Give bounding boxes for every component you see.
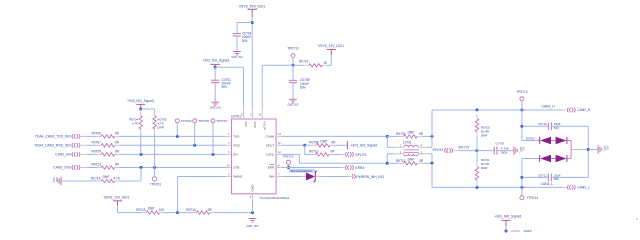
wire CANH rail [432, 110, 566, 136]
node 3V3 junction [214, 66, 217, 69]
svg-text:C0711: C0711 [538, 173, 547, 177]
svg-text:10: 10 [258, 114, 261, 117]
svg-text:0R: 0R [419, 132, 424, 136]
svg-text:DNP: DNP [481, 166, 488, 170]
node VSUP junction [292, 64, 295, 67]
wire CAN2_STB to resistor [81, 167, 97, 169]
capacitor C0708 [289, 78, 310, 89]
svg-text:0R: 0R [419, 159, 424, 163]
node TXD testpoint junction [176, 135, 179, 138]
wire WAKE down [178, 177, 226, 213]
svg-text:ISO: ISO [606, 146, 609, 150]
svg-text:EN: EN [233, 153, 237, 157]
svg-text:CANH: CANH [266, 135, 275, 139]
node SPLIT junction [303, 144, 306, 147]
pin stub 4 [226, 142, 232, 145]
svg-text:0R: 0R [330, 149, 335, 153]
capacitor C0704 [233, 32, 252, 43]
testpoint TP0712 [287, 46, 299, 57]
svg-text:C0712: C0712 [538, 122, 547, 126]
svg-text:4: 4 [228, 142, 230, 145]
wire 12V down [118, 206, 142, 213]
svg-text:CANL: CANL [266, 153, 275, 157]
wire VCC vertical [251, 18, 253, 108]
svg-text:4.7K: 4.7K [132, 122, 139, 126]
svg-text:TP0714: TP0714 [527, 196, 538, 200]
svg-text:CAN2_L: CAN2_L [541, 182, 554, 186]
wire R0713 to IC [119, 167, 226, 169]
svg-text:100nF: 100nF [523, 229, 532, 233]
power +3V3_ISO_Signal1 split [335, 141, 378, 149]
svg-text:TP0701: TP0701 [150, 183, 161, 187]
svg-text:+3V3_ISO_Signal1: +3V3_ISO_Signal1 [202, 58, 229, 62]
node cap C0712 junction [520, 125, 523, 128]
svg-text:GND_ISO: GND_ISO [210, 107, 221, 110]
svg-text:GND_ISO: GND_ISO [231, 56, 242, 59]
wire R0701 to 12V [327, 50, 332, 66]
wire TP0705 to RXD [194, 123, 196, 145]
wire TP0712 stub [292, 58, 294, 66]
svg-text:ISO: ISO [521, 147, 524, 151]
svg-text:GND_: GND_ [519, 147, 522, 154]
svg-text:TCAN1043HGVDRQ1: TCAN1043HGVDRQ1 [260, 196, 290, 200]
off-page connector CAN2_H [567, 108, 591, 113]
svg-text:11: 11 [278, 142, 281, 145]
node CANL choke right [431, 162, 434, 165]
power +3V3_ISO_Signal1 bottom [494, 215, 521, 226]
resistor R0707 0R [92, 141, 120, 148]
svg-text:6: 6 [228, 151, 230, 154]
svg-text:SPLIT3: SPLIT3 [432, 148, 443, 152]
svg-text:TP0705: TP0705 [198, 119, 209, 123]
wire CANH [282, 135, 388, 137]
svg-text:VSUP: VSUP [263, 122, 267, 130]
node RXD testpoint junction [193, 144, 196, 147]
wire R0705 to STB [154, 134, 156, 168]
wire SPLIT [282, 144, 305, 146]
power +3V3_ISO_Signal1 left [202, 58, 229, 67]
node EN pullup junction [140, 153, 143, 156]
off-page connector ERR3 [345, 165, 364, 170]
svg-text:a: a [636, 218, 638, 221]
wire VSUP to C0708 [292, 65, 294, 80]
pin stub 14 [226, 164, 232, 167]
svg-text:12: 12 [278, 151, 281, 154]
svg-text:INH: INH [269, 175, 274, 179]
node ERR junction [287, 166, 290, 169]
power VSYS_12V_ISO1 bottom [104, 196, 130, 206]
svg-text:+3V3_ISO_Signal1: +3V3_ISO_Signal1 [127, 99, 154, 103]
svg-text:13: 13 [278, 133, 281, 136]
wire R0710 to connector [334, 154, 345, 156]
svg-text:CAN2_EN: CAN2_EN [55, 152, 71, 156]
pin stub WAKE [226, 173, 232, 176]
diode D0701 zener [306, 171, 317, 182]
wire TP0701 stub [154, 168, 156, 177]
svg-text:PWRON_INH_ISO: PWRON_INH_ISO [356, 175, 384, 179]
node bottom junction [505, 230, 508, 233]
svg-text:50V: 50V [222, 85, 229, 89]
svg-text:0R: 0R [115, 163, 120, 167]
node EN testpoint junction [212, 153, 215, 156]
svg-text:C0707: C0707 [495, 142, 504, 146]
off-page connector CAN2_STB [53, 165, 80, 170]
svg-text:SPLIT: SPLIT [266, 144, 275, 148]
svg-text:DNP: DNP [157, 126, 164, 130]
svg-text:+3V3_ISO_Signal1: +3V3_ISO_Signal1 [351, 144, 378, 148]
svg-text:DNP: DNP [408, 131, 415, 135]
stray mark right edge [636, 218, 638, 221]
power +3V3_ISO_Signal1 pullups [127, 99, 154, 109]
svg-text:R0709: R0709 [92, 150, 102, 154]
svg-text:CAN2_H: CAN2_H [542, 105, 556, 109]
svg-text:DNP: DNP [408, 158, 415, 162]
wire TDA4_CAN2_TXD_ISO to resistor [81, 135, 97, 137]
node TVS ground junction [587, 148, 590, 151]
svg-text:TP0710: TP0710 [283, 155, 294, 159]
svg-text:VIO: VIO [244, 122, 248, 128]
resistor R0708 0R DNP [305, 139, 336, 147]
ground below C0708 [287, 99, 298, 106]
testpoint TP0713 [516, 90, 527, 101]
capacitor C0701 [211, 78, 231, 89]
capacitor C0707 4.7nF [477, 142, 509, 155]
svg-text:GND_: GND_ [52, 177, 55, 184]
svg-text:ISO: ISO [55, 177, 58, 181]
ground below IC [246, 219, 258, 228]
svg-text:100V: 100V [500, 151, 508, 155]
wire R0702 to node [476, 137, 478, 151]
wire INH [282, 176, 306, 178]
svg-text:TP0713: TP0713 [516, 90, 527, 94]
power VSYS_12V_ISO1 top [318, 44, 344, 49]
svg-text:GND_ISO: GND_ISO [287, 104, 298, 107]
svg-text:R0715: R0715 [136, 208, 146, 212]
svg-text:7: 7 [278, 173, 280, 176]
resistor R0712 0R DNP bypass [387, 158, 432, 165]
svg-text:ERR3: ERR3 [355, 166, 364, 170]
off-page connector CAN2_EN [55, 152, 80, 157]
wire C0707 to ground [497, 150, 513, 152]
wire TVS left top [521, 110, 523, 141]
svg-text:0R: 0R [115, 132, 120, 136]
svg-text:D0702: D0702 [526, 136, 535, 140]
svg-text:VSYS_12V_ISO1: VSYS_12V_ISO1 [104, 196, 130, 200]
svg-text:R0707: R0707 [92, 141, 102, 145]
off-page connector SPLIT3 mid [345, 152, 366, 157]
svg-text:R0714: R0714 [91, 176, 101, 180]
wire TVS right vertical [587, 126, 589, 177]
node CANH choke right [431, 135, 434, 138]
wire 3V3 to C0701 [214, 67, 216, 80]
node WAKE divider [176, 211, 179, 214]
svg-text:DNP: DNP [320, 139, 327, 143]
wire R0706 to IC [119, 135, 226, 137]
off-page connector TDA4_CAN2_RXD_ISO [34, 143, 80, 148]
off-page connector SPLIT3 right [432, 148, 452, 153]
node STB pulldown junction [140, 166, 143, 169]
svg-text:CAN2_L: CAN2_L [577, 185, 590, 189]
svg-text:4.7K: 4.7K [113, 176, 120, 180]
node STB pullup junction [153, 166, 156, 169]
net label SPLIT3 [458, 145, 469, 149]
diode array D0702 TVS [522, 136, 588, 162]
testpoint TP0702 [175, 119, 192, 123]
capacitor C0712 33pF [522, 122, 588, 130]
svg-text:R0716: R0716 [186, 208, 196, 212]
resistor R0713 0R [92, 163, 120, 170]
node CANH choke left [386, 135, 389, 138]
svg-text:R0710: R0710 [309, 149, 319, 153]
common-mode choke L0701 [387, 136, 432, 163]
wire TVS left bottom [521, 159, 523, 188]
svg-text:9: 9 [228, 173, 230, 176]
resistor R0704 4.7K [129, 109, 142, 134]
wire R0707 to IC [119, 144, 226, 146]
text annotation [289, 169, 315, 173]
wire SPLIT3 [454, 150, 477, 152]
svg-text:R0701: R0701 [299, 60, 309, 64]
svg-text:R0706: R0706 [92, 132, 102, 136]
node pullup junction [139, 108, 142, 111]
wire gnd to R0714 [61, 180, 97, 182]
wire TP0710 stub [288, 164, 290, 167]
wire R0714 to STB [119, 168, 141, 182]
wire IC GND pin down [252, 201, 254, 213]
svg-text:R0712: R0712 [396, 159, 406, 163]
svg-text:SPLIT3: SPLIT3 [458, 145, 469, 149]
svg-text:TDA4_CAN2_RXD_ISO: TDA4_CAN2_RXD_ISO [34, 143, 71, 147]
ground right of TVS [598, 145, 609, 153]
node rail TVS bottom [520, 186, 523, 189]
testpoint TP0705 [193, 119, 210, 123]
svg-text:ERR: ERR [268, 166, 275, 170]
node VCC junction [251, 21, 254, 24]
node rail R0711 [476, 186, 479, 189]
net label CAN2_L [541, 182, 554, 186]
resistor R0716 0R [186, 208, 214, 214]
svg-text:DNP: DNP [148, 207, 155, 211]
wire TP0714 stub [521, 187, 523, 195]
testpoint TP0701 [150, 177, 161, 187]
testpoint TP0714 [520, 196, 538, 200]
wire pullup split [141, 108, 155, 110]
capacitor C0711 33pF [522, 173, 588, 181]
wire 3V3 to VIO pin [215, 67, 243, 107]
svg-text:0R: 0R [331, 141, 336, 145]
off-page connector PWRON_INH_ISO [352, 174, 384, 179]
wire C0701 to ground [214, 83, 216, 103]
wire TP0702 to TXD [176, 123, 178, 136]
wire TP0707 to EN [212, 123, 214, 154]
wire CANL rail [432, 163, 566, 187]
svg-text:TXD: TXD [233, 135, 240, 139]
wire to right ground [588, 149, 597, 151]
svg-text:14: 14 [227, 164, 230, 167]
wire CAN2_EN to resistor [81, 153, 97, 155]
resistor R0710 0R [309, 149, 335, 156]
svg-text:0R: 0R [115, 150, 120, 154]
svg-text:3: 3 [250, 114, 252, 117]
svg-text:5: 5 [241, 114, 243, 117]
ground right of C0707 [514, 146, 525, 154]
node SPLIT3 junction [475, 149, 478, 152]
svg-text:DNP: DNP [481, 133, 488, 137]
op-amp U0701 CAN transceiver IC [231, 107, 290, 201]
svg-text:VSYS_12V_ISO1: VSYS_12V_ISO1 [318, 44, 344, 48]
wire VSUP to pin [262, 65, 293, 107]
resistor R0714 4.7K DNP [91, 175, 121, 183]
svg-text:0R: 0R [115, 141, 120, 145]
wire C0708 to ground [292, 83, 294, 100]
svg-text:C0706: C0706 [511, 229, 520, 233]
wire TP0713 stub [521, 101, 523, 110]
svg-text:DNP: DNP [103, 175, 110, 179]
svg-text:TP0712: TP0712 [287, 46, 299, 50]
svg-text:+3V3_ISO_Signal1: +3V3_ISO_Signal1 [494, 215, 521, 219]
svg-text:8: 8 [278, 164, 280, 167]
ground left of R0714 [52, 177, 61, 185]
svg-text:STB: STB [233, 166, 239, 170]
wire R0711 to rail [476, 185, 478, 188]
resistor R0711 60.4R DNP [475, 151, 490, 185]
svg-text:R0708: R0708 [309, 141, 319, 145]
wire CANL jog [282, 154, 388, 163]
wire node to R0716 [178, 212, 192, 214]
node rail TVS top [520, 109, 523, 112]
svg-text:1: 1 [228, 133, 230, 136]
node CANL choke left [386, 162, 389, 165]
node IC ground junction [251, 211, 254, 214]
svg-text:TDA4_CAN2_TXD_ISO: TDA4_CAN2_TXD_ISO [35, 134, 71, 138]
wire R0709 to IC [119, 153, 226, 155]
svg-text:TP0702: TP0702 [181, 119, 192, 123]
svg-text:SPLIT3: SPLIT3 [355, 153, 366, 157]
wire to C0704 [237, 23, 252, 34]
svg-text:RXD: RXD [233, 144, 240, 148]
node rail R0702 [476, 109, 479, 112]
resistor R0701 1K [293, 60, 328, 67]
svg-text:R0713: R0713 [92, 163, 102, 167]
ground below C0701 [210, 102, 221, 109]
svg-text:WAKE: WAKE [233, 175, 242, 179]
net label CAN2_H [542, 105, 556, 109]
wire C0704 to ground [236, 36, 238, 52]
wire SPLIT down [305, 145, 311, 154]
wire INH to connector [315, 176, 352, 178]
svg-text:R0703: R0703 [396, 132, 406, 136]
power VSYS_5V0_ISO1 [239, 5, 266, 18]
svg-text:GND_: GND_ [603, 146, 606, 153]
wire ERR [282, 167, 345, 169]
ground below C0704 [231, 52, 242, 59]
svg-text:0R: 0R [208, 208, 213, 212]
testpoint TP0707 [211, 119, 228, 123]
svg-text:50V: 50V [300, 85, 307, 89]
svg-text:50V: 50V [554, 177, 559, 181]
resistor R0706 0R [92, 132, 120, 139]
node cap C0711 junction [520, 176, 523, 179]
svg-text:2: 2 [250, 196, 252, 199]
pin stub 6 [226, 151, 232, 154]
svg-text:U0701: U0701 [231, 115, 241, 119]
svg-text:CAN2_STB: CAN2_STB [53, 166, 71, 170]
svg-text:10K: 10K [159, 208, 166, 212]
svg-text:VCC: VCC [253, 122, 257, 129]
off-page connector CAN2_L [567, 185, 590, 190]
wire R0716 to gnd node [214, 212, 252, 214]
resistor R0715 10K DNP [136, 207, 165, 215]
wire R0704 to EN [140, 134, 142, 155]
svg-text:CAN2_H: CAN2_H [577, 108, 591, 112]
resistor R0709 0R [92, 150, 120, 157]
svg-text:50V: 50V [554, 126, 559, 130]
svg-text:1K: 1K [323, 61, 328, 65]
resistor R0705 4.7K DNP [153, 109, 167, 134]
wire 3V3 bottom [505, 226, 507, 231]
pin stub 1 [226, 133, 232, 136]
svg-text:VSYS_5V0_ISO1: VSYS_5V0_ISO1 [239, 5, 266, 9]
svg-text:GND: GND [251, 184, 255, 192]
resistor R0702 60.4R DNP [475, 110, 490, 137]
capacitor C0706 labels [506, 229, 532, 233]
svg-text:Text Annotation2: Text Annotation2 [290, 169, 312, 173]
wire TDA4_CAN2_RXD_ISO to resistor [81, 144, 97, 146]
svg-text:TP0707: TP0707 [217, 119, 228, 123]
testpoint TP0710 [283, 155, 294, 165]
svg-text:GND_ISO: GND_ISO [246, 224, 258, 228]
off-page connector TDA4_CAN2_TXD_ISO [35, 134, 80, 139]
resistor R0703 0R DNP bypass [387, 131, 432, 139]
wire R0715 to node [164, 212, 177, 214]
svg-text:L0701: L0701 [403, 140, 412, 144]
svg-text:50V: 50V [242, 39, 249, 43]
